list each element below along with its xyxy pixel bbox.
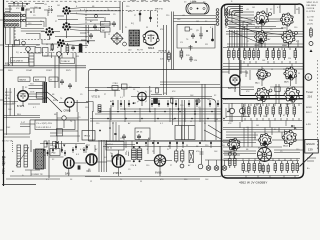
svg-text:4952 W JV G605BY: 4952 W JV G605BY <box>239 180 267 184</box>
svg-text:P17 H: P17 H <box>137 49 143 51</box>
dark component above switch <box>21 7 24 11</box>
svg-text:6BJ6: 6BJ6 <box>255 28 260 30</box>
svg-text:6.3: 6.3 <box>76 154 79 156</box>
svg-text:DEL MFG: DEL MFG <box>307 5 317 7</box>
left cluster extra parts <box>51 43 53 51</box>
resistor R31 <box>168 51 171 63</box>
svg-text:5W: 5W <box>76 56 79 58</box>
svg-text:FLD 4 W RO-1: FLD 4 W RO-1 <box>37 127 52 129</box>
svg-text:C9: C9 <box>33 15 36 17</box>
svg-text:FLD 2: FLD 2 <box>306 112 312 114</box>
shield partition thick line <box>220 8 222 98</box>
svg-text:4.7: 4.7 <box>80 149 83 151</box>
svg-text:1R: 1R <box>205 44 208 46</box>
svg-text:C9: C9 <box>113 14 116 16</box>
resistor row 3 <box>242 161 245 173</box>
svg-text:CRMB: CRMB <box>64 111 72 113</box>
top tick marks <box>130 0 169 2</box>
mid tube verticals <box>262 67 292 105</box>
top-left extra wires <box>8 2 44 6</box>
wire verticals x120 <box>120 2 123 33</box>
tuner sub-box <box>177 25 215 49</box>
enclosure spare wires <box>223 64 303 159</box>
top dashed border <box>6 0 170 2</box>
diagonal wires to enclosure <box>204 125 221 139</box>
margin arrow <box>310 49 313 52</box>
svg-text:T4: T4 <box>270 155 272 157</box>
speck texts bottom band <box>46 145 233 183</box>
parts left of T2 <box>80 25 89 44</box>
svg-text:6BA6: 6BA6 <box>282 44 287 47</box>
tube V4 6SP6 <box>18 91 29 102</box>
svg-text:27: 27 <box>88 145 90 147</box>
svg-text:Tuner: Tuner <box>306 90 313 94</box>
capacitor C21 <box>189 45 193 51</box>
top-left parts low <box>15 41 20 46</box>
part box d <box>43 48 49 57</box>
bottom bus wires <box>100 141 222 147</box>
tube V8 triode <box>230 75 240 85</box>
svg-text:X2: X2 <box>205 21 207 23</box>
pilot lamps <box>206 166 211 171</box>
bottom-left diodes <box>56 142 58 144</box>
hanging components on buses <box>112 100 219 107</box>
svg-text:4.7: 4.7 <box>277 7 280 9</box>
svg-text:5A8: 5A8 <box>65 173 70 176</box>
svg-text:1M: 1M <box>230 151 233 153</box>
lamp ring a <box>198 164 203 169</box>
svg-text:33: 33 <box>164 93 166 95</box>
verticals into bottom section <box>110 122 119 141</box>
margin resistor <box>310 27 313 38</box>
antenna coil L1 <box>16 145 29 167</box>
part with X <box>189 151 194 163</box>
row1 buses <box>223 48 303 64</box>
wires y44 left <box>5 45 40 47</box>
svg-text:12SA7: 12SA7 <box>26 69 32 72</box>
tube socket X3 <box>62 22 71 31</box>
band switch S1 wafer <box>4 13 21 27</box>
svg-text:X2: X2 <box>270 9 272 11</box>
electrolytic cap C12 <box>139 11 141 22</box>
left border ticks <box>0 20 4 130</box>
cap C42 <box>137 134 141 140</box>
svg-text:SPKR: SPKR <box>306 107 312 109</box>
speck texts mid band <box>8 87 232 125</box>
svg-text:PH-2: PH-2 <box>5 95 10 97</box>
part small a <box>156 88 159 93</box>
svg-text:33: 33 <box>216 119 218 121</box>
V22 inner dots <box>285 19 287 21</box>
wires below note <box>4 120 88 137</box>
tuner bus wires <box>174 16 217 25</box>
coil pair dots <box>133 146 135 148</box>
enclosure tube leads <box>234 24 291 159</box>
svg-text:X2: X2 <box>52 159 54 161</box>
svg-text:4.7: 4.7 <box>210 27 213 29</box>
margin ring <box>309 42 313 46</box>
wires mid verticals <box>164 52 206 141</box>
dashed shield box <box>15 27 50 40</box>
wires near V8 <box>222 60 248 92</box>
svg-text:C9: C9 <box>280 151 283 153</box>
svg-text:4.7: 4.7 <box>225 99 228 101</box>
svg-text:PL: PL <box>283 69 285 71</box>
svg-text:0.1: 0.1 <box>96 29 99 31</box>
resistor R52 <box>181 149 184 163</box>
TRV box <box>82 131 95 141</box>
wires near lower box left <box>224 152 240 155</box>
svg-text:T6: T6 <box>186 39 188 41</box>
svg-text:1M: 1M <box>252 7 255 9</box>
svg-text:C55: C55 <box>120 138 124 140</box>
svg-text:6BE6: 6BE6 <box>148 47 155 50</box>
mid small parts <box>275 87 280 92</box>
cluster A caps <box>93 24 97 30</box>
svg-text:C9: C9 <box>78 117 81 119</box>
V24 marks <box>286 37 288 39</box>
svg-text:X2: X2 <box>274 129 276 131</box>
svg-text:.05: .05 <box>246 9 249 11</box>
internal horizontal divider lower <box>222 98 304 100</box>
svg-text:MRT W: MRT W <box>155 9 164 11</box>
svg-text:216: 216 <box>308 95 313 99</box>
L2 marks <box>287 138 289 140</box>
svg-text:4.7: 4.7 <box>294 129 297 131</box>
svg-text:0.1: 0.1 <box>160 123 163 125</box>
svg-text:12: 12 <box>108 34 110 36</box>
bus y121 <box>90 120 222 122</box>
svg-text:4-PR: 4-PR <box>306 124 311 126</box>
cluster parts above V6 <box>112 86 118 91</box>
tube L2 <box>282 130 296 144</box>
resistor R2 <box>66 43 69 55</box>
svg-text:6AL5: 6AL5 <box>255 82 260 85</box>
wires at V5 <box>59 100 88 112</box>
bus y109 <box>120 108 222 110</box>
V6 corner ticks <box>137 91 147 102</box>
volume label box <box>11 58 29 63</box>
svg-text:6AV6: 6AV6 <box>284 81 289 84</box>
cable harness arcs <box>225 4 244 16</box>
chassis box top edge <box>89 70 240 73</box>
svg-text:6BE6: 6BE6 <box>255 45 260 47</box>
rectifier tube V9 5Y3 <box>64 158 75 169</box>
tiny marks above cluster A <box>95 15 98 18</box>
svg-text:27: 27 <box>104 94 106 96</box>
tube V24 <box>281 30 295 44</box>
svg-text:.05: .05 <box>44 4 47 6</box>
svg-text:FLP: FLP <box>53 100 58 102</box>
svg-text:SPEC 51-R: SPEC 51-R <box>307 2 319 4</box>
bottom edge stub line <box>2 184 36 186</box>
iron core dark bar <box>43 82 48 103</box>
svg-text:12: 12 <box>271 69 273 71</box>
svg-text:1M: 1M <box>102 30 105 32</box>
svg-text:VOLUME B: VOLUME B <box>12 60 24 62</box>
bottom extra verticals <box>112 141 132 160</box>
switch to X1 wires <box>26 18 46 27</box>
internal horizontal divider upper <box>240 95 304 97</box>
svg-text:0.1: 0.1 <box>46 179 49 181</box>
capacitor C24 <box>199 27 203 40</box>
svg-text:L40: L40 <box>128 49 131 51</box>
resistor row 1 <box>228 48 231 60</box>
svg-text:27: 27 <box>170 165 172 167</box>
svg-text:C9: C9 <box>80 94 83 96</box>
svg-text:27: 27 <box>134 15 136 17</box>
more enclosure wires <box>226 14 298 84</box>
svg-text:220: 220 <box>184 179 187 181</box>
svg-text:220: 220 <box>309 20 314 22</box>
svg-text:150: 150 <box>263 116 266 118</box>
svg-text:150: 150 <box>36 45 39 47</box>
V9 V10 connecting wires <box>25 157 86 176</box>
lamp ring b <box>180 164 184 168</box>
svg-text:50L6: 50L6 <box>8 70 13 72</box>
enclosure mid buses <box>223 67 303 133</box>
svg-text:.05: .05 <box>182 15 185 17</box>
svg-text:1M: 1M <box>57 5 60 7</box>
switch extra contacts <box>20 14 26 22</box>
tube LB 6BQ5 <box>228 138 241 151</box>
svg-text:MOD 4: MOD 4 <box>5 92 12 94</box>
tube M1 <box>256 69 267 80</box>
fan wires from X3 <box>67 24 113 38</box>
diagonal from core <box>47 92 62 112</box>
top dots small caps <box>136 142 212 144</box>
bottom long wires <box>85 155 222 179</box>
tube V23 <box>255 31 267 44</box>
bottom small parts cluster <box>43 144 88 156</box>
svg-text:12: 12 <box>150 91 152 93</box>
resistor R3 large <box>29 53 34 66</box>
svg-text:LW: LW <box>2 151 5 153</box>
note box <box>35 120 75 130</box>
wires around X1 <box>41 32 88 45</box>
svg-text:SW: SW <box>2 163 5 165</box>
boxed note bottom <box>106 142 124 151</box>
svg-text:PL: PL <box>204 123 206 125</box>
wires at contacts <box>226 103 250 122</box>
part box c <box>35 48 41 54</box>
horiz y84 wires <box>160 82 220 85</box>
grid cap rings <box>269 13 272 16</box>
bottom-left wires <box>6 140 100 179</box>
electrolytic cap dark <box>79 44 83 53</box>
left verticals mid <box>10 88 14 116</box>
wires left of tuner <box>164 12 174 70</box>
tube M2 <box>284 67 297 80</box>
enclosure row3 extra parts <box>262 164 264 174</box>
svg-text:2TRO: 2TRO <box>113 83 119 85</box>
antenna dotted pair <box>49 6 52 13</box>
svg-text:12: 12 <box>190 121 192 123</box>
resistor R21 220 <box>180 49 183 60</box>
T2 lead circle <box>123 42 127 46</box>
middle box verticals <box>93 100 125 141</box>
left cluster extra wires <box>44 52 73 58</box>
margin lower marks <box>307 158 316 161</box>
chassis box left and bottom edge <box>89 72 237 141</box>
more fan stubs top <box>85 18 104 21</box>
speck texts enclosure <box>246 7 300 157</box>
driver tube V10b <box>112 155 124 167</box>
tube L1 <box>258 133 271 146</box>
wires y136 left <box>50 133 80 136</box>
svg-text:220: 220 <box>205 145 208 147</box>
svg-text:1M: 1M <box>207 99 210 101</box>
output tube V11 6V6 <box>154 155 165 166</box>
tube V21 <box>255 11 269 25</box>
svg-text:VT52 B: VT52 B <box>92 96 101 98</box>
svg-text:6AQ5: 6AQ5 <box>283 145 288 148</box>
svg-text:K 4 PPG: K 4 PPG <box>307 11 316 13</box>
svg-text:TR 52: TR 52 <box>107 148 113 150</box>
speck texts band top <box>16 2 213 36</box>
svg-text:LV = 2(ST)-YRL: LV = 2(ST)-YRL <box>37 123 53 125</box>
svg-text:12: 12 <box>90 181 92 183</box>
bottom-mid verticals <box>99 140 211 172</box>
svg-text:35Z5: 35Z5 <box>66 70 71 72</box>
tube V22 <box>280 13 293 26</box>
IF transformer T2 crosshatched core <box>129 30 140 46</box>
midright verticals adjust <box>173 99 196 125</box>
svg-text:TR-4: TR-4 <box>137 136 143 138</box>
extra junctions <box>109 127 111 129</box>
svg-text:MW: MW <box>2 157 6 159</box>
wires from switch right <box>14 27 45 47</box>
svg-text:T4: T4 <box>110 153 112 155</box>
chassis enclosure rounded box <box>222 4 304 178</box>
svg-text:A4: A4 <box>12 170 14 173</box>
component cluster A <box>101 17 111 38</box>
enclosure top inner wires <box>228 5 299 29</box>
low dots <box>291 125 293 127</box>
low tube wires <box>265 126 295 147</box>
svg-text:12SK7: 12SK7 <box>46 70 52 72</box>
small parts x57 <box>57 129 63 136</box>
svg-text:220: 220 <box>288 58 291 60</box>
tube M3 <box>255 87 269 101</box>
svg-text:FLD: FLD <box>52 153 57 155</box>
svg-text:6AQ5: 6AQ5 <box>286 103 291 106</box>
svg-text:mt: mt <box>203 0 206 3</box>
diamond trimmer block <box>111 33 123 45</box>
svg-text:1M: 1M <box>256 125 259 127</box>
junction dots midright <box>172 103 174 105</box>
svg-text:150: 150 <box>146 165 149 167</box>
svg-text:PL: PL <box>167 149 169 151</box>
svg-text:6F6: 6F6 <box>87 171 92 173</box>
M1 grid cap <box>267 73 270 76</box>
svg-text:0.1: 0.1 <box>296 41 299 43</box>
svg-text:220: 220 <box>166 15 169 17</box>
contact strip left <box>216 9 219 26</box>
svg-text:PL: PL <box>125 27 127 29</box>
svg-text:27k B: 27k B <box>131 165 137 167</box>
bus pair y97 <box>151 95 216 141</box>
wires at V11 <box>145 146 173 176</box>
wires below row2 <box>227 43 303 48</box>
svg-text:.05: .05 <box>16 95 19 97</box>
junction circle plus <box>196 99 200 103</box>
svg-text:2TR5 B: 2TR5 B <box>113 173 122 175</box>
vertical ticks crossing buses <box>110 108 230 122</box>
svg-text:2Q: 2Q <box>16 52 19 54</box>
dial drive assembly <box>186 3 209 14</box>
left page border line <box>3 0 5 186</box>
far left vertical mid <box>6 88 8 135</box>
tube SP spoked <box>258 148 272 162</box>
bus lines left y66 <box>4 66 86 68</box>
field coil box <box>50 149 60 156</box>
internal vertical divider <box>239 4 241 95</box>
svg-text:150: 150 <box>294 27 297 29</box>
box with dividers <box>175 126 195 140</box>
svg-text:AF 26: AF 26 <box>137 131 144 134</box>
rel line <box>4 116 40 118</box>
bus y111 <box>100 111 222 113</box>
part R24 <box>185 27 190 31</box>
switch wiring verticals <box>6 2 30 44</box>
svg-text:C9: C9 <box>128 169 131 171</box>
converter tube V3 6BE6 <box>144 31 158 45</box>
svg-text:MAINS: MAINS <box>20 79 27 82</box>
svg-text:0.1: 0.1 <box>120 97 123 99</box>
svg-text:T10: T10 <box>30 84 34 86</box>
svg-text:PL: PL <box>156 103 158 105</box>
tube M4 <box>284 87 299 102</box>
extra verticals near tubes bottom <box>86 145 129 156</box>
svg-text:mt: mt <box>184 0 187 3</box>
svg-text:47: 47 <box>283 115 285 117</box>
bus y114 <box>95 113 222 115</box>
bus line y87 <box>85 87 240 89</box>
svg-text:4.7: 4.7 <box>33 107 36 109</box>
svg-text:.05: .05 <box>220 175 223 177</box>
svg-text:25: 25 <box>62 43 64 45</box>
svg-text:TONE W: TONE W <box>61 61 70 63</box>
wires x57 middle <box>57 112 78 142</box>
svg-text:T4: T4 <box>246 25 248 27</box>
contact strip right <box>225 9 228 26</box>
svg-text:139: 139 <box>308 148 313 152</box>
tube V6 VT52 <box>138 92 146 100</box>
electrolytic cap C13 <box>150 11 152 23</box>
svg-text:C9: C9 <box>270 29 273 31</box>
svg-text:±10%: ±10% <box>307 24 313 26</box>
bus y118 <box>90 118 222 120</box>
svg-text:REL: REL <box>17 114 21 116</box>
svg-text:27: 27 <box>55 21 57 23</box>
margin jack ring <box>305 74 312 81</box>
svg-text:150: 150 <box>96 123 99 125</box>
left mid extra wires <box>20 118 78 128</box>
svg-text:220: 220 <box>26 10 29 12</box>
capacitor C33 <box>189 56 193 62</box>
left small caps <box>60 79 64 85</box>
tube socket X2 <box>62 6 71 15</box>
boxed label mid2 <box>135 128 150 140</box>
tuner extra parts <box>191 33 195 39</box>
lamp leads <box>205 160 228 166</box>
part rect e <box>44 141 47 147</box>
mains label boxes <box>18 77 30 82</box>
svg-text:X2: X2 <box>214 95 216 97</box>
wires tube V4 to core <box>23 86 43 107</box>
resistor row 2 <box>243 104 246 117</box>
